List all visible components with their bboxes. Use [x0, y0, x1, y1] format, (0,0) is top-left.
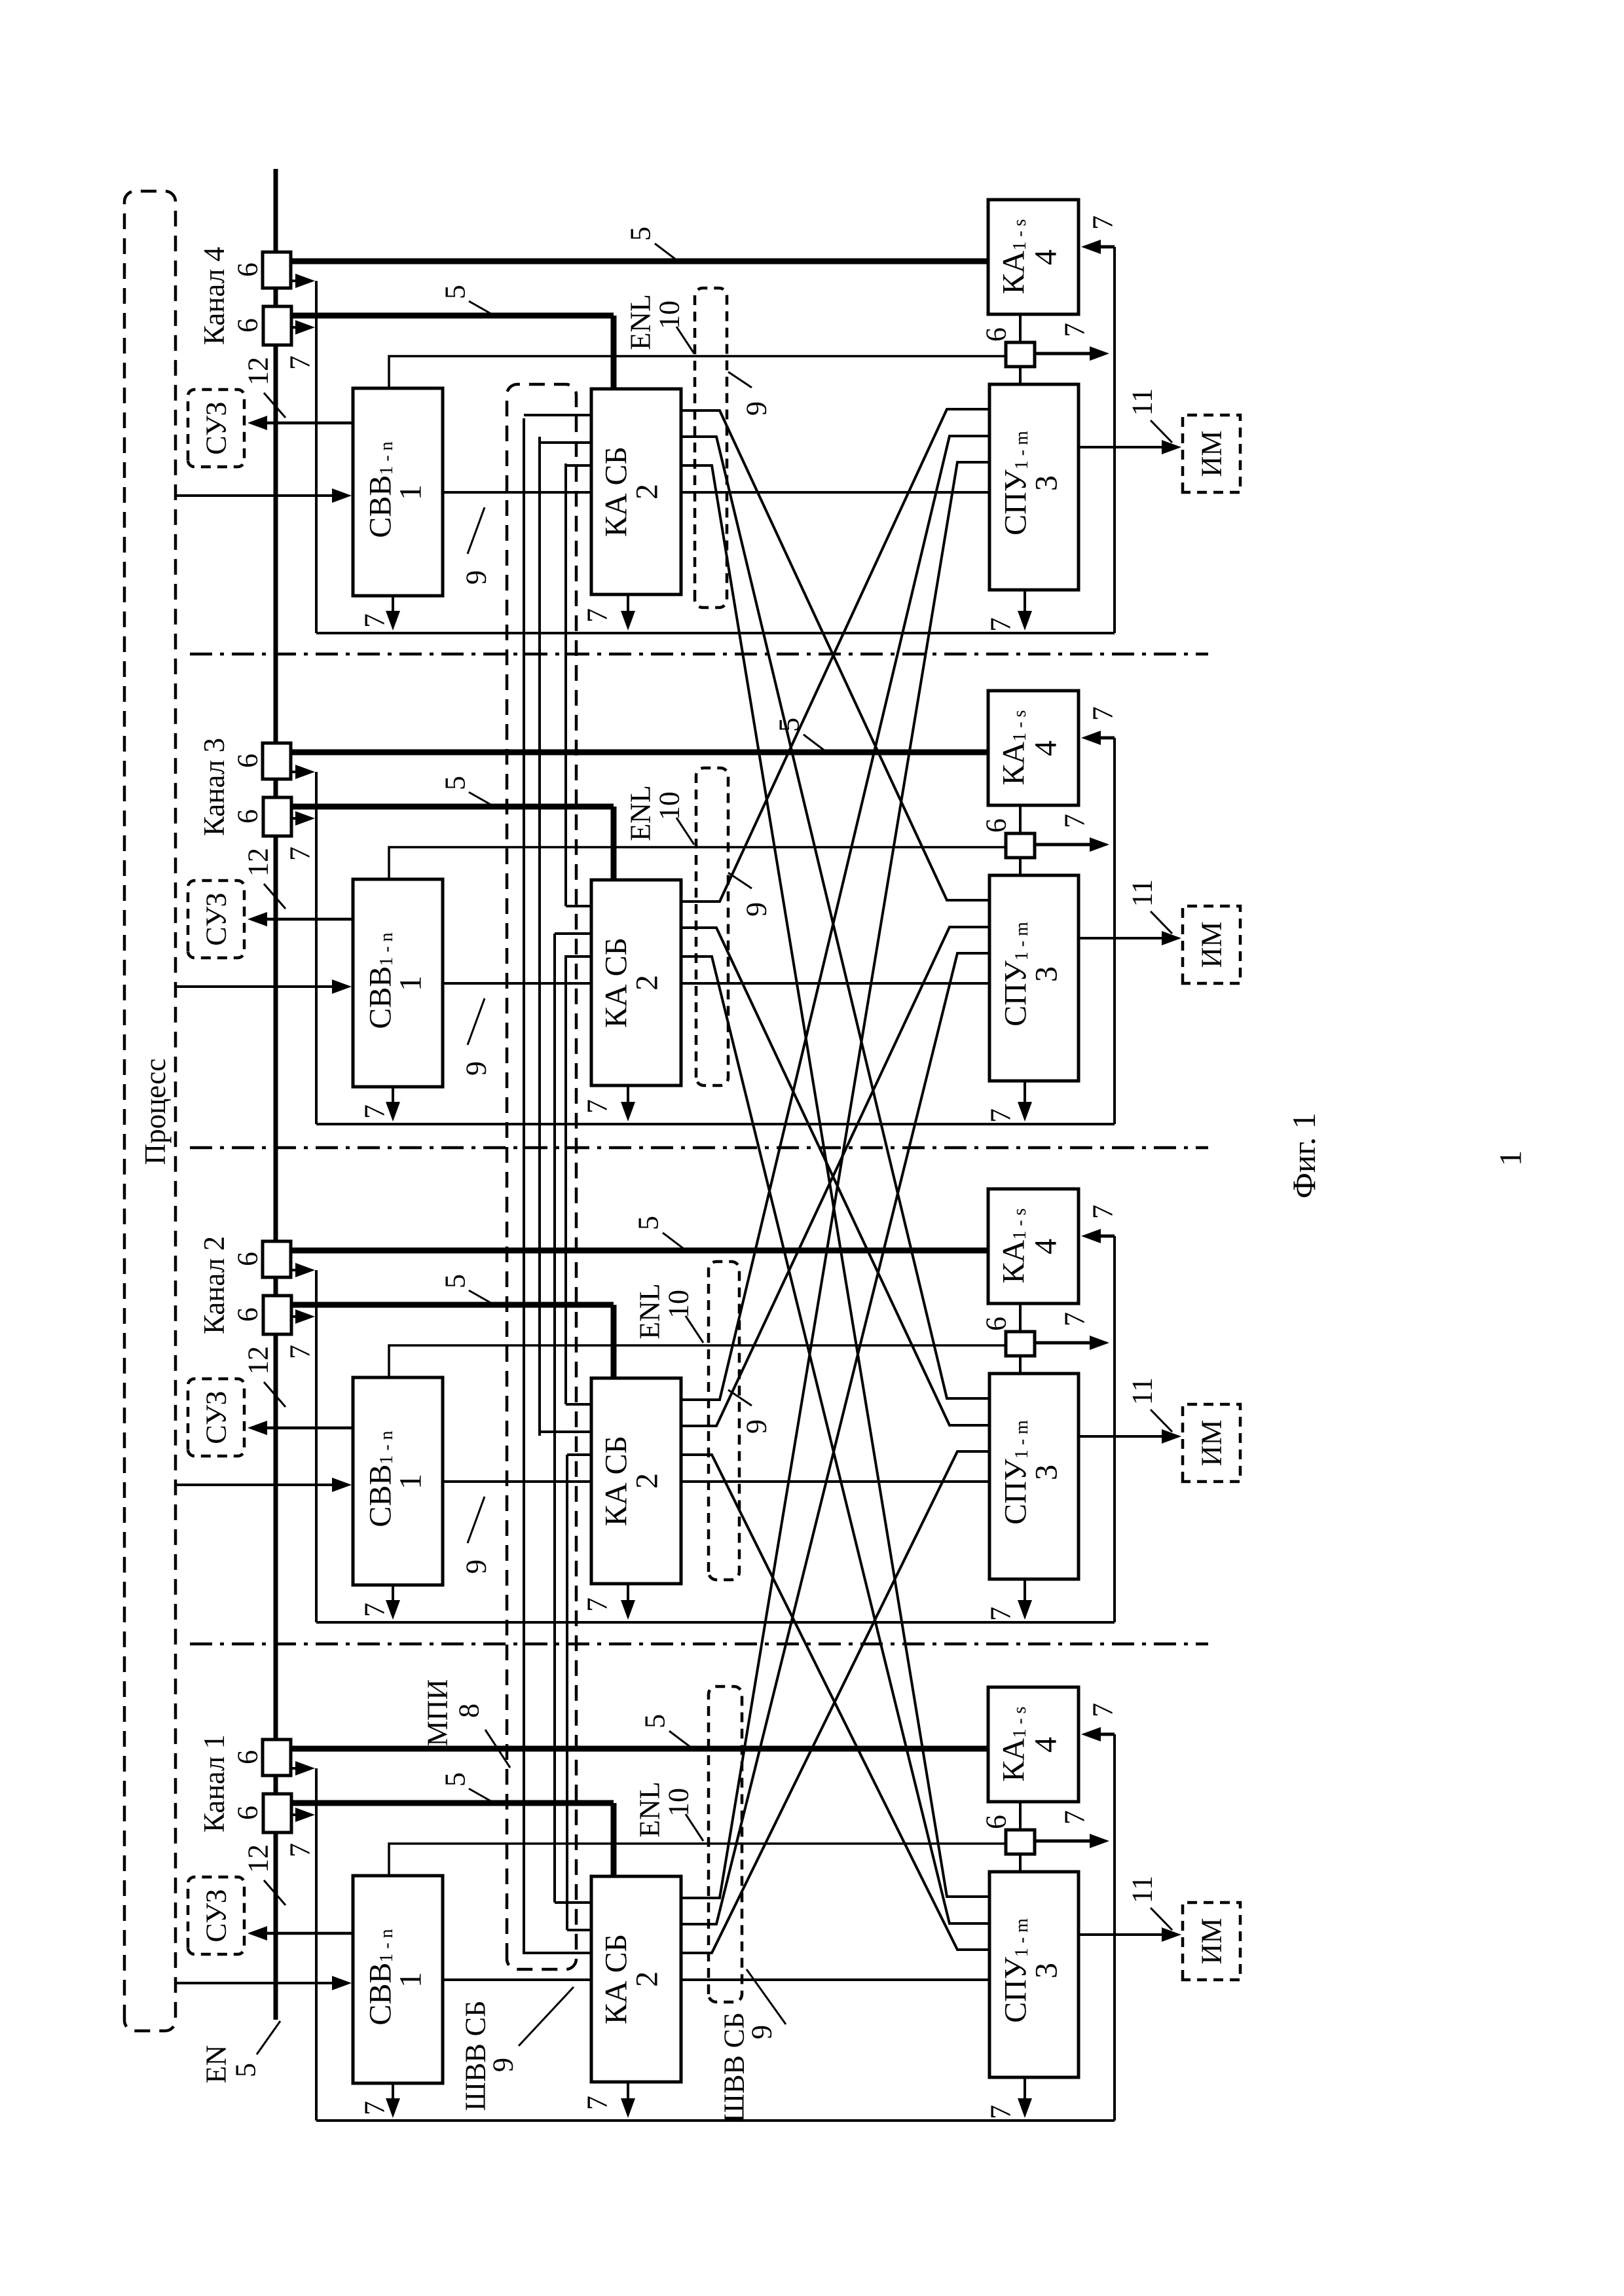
svg-text:12: 12	[242, 1346, 274, 1375]
svg-text:12: 12	[242, 1844, 274, 1873]
wire KA SB to SPU horizontal ch4	[681, 491, 989, 494]
wire MPI stub L1 into KA SB ch1	[555, 1901, 591, 1904]
wire line 7 bottom horizontal ch2	[316, 1621, 1115, 1624]
callout slash ENL 10 ch1	[686, 1814, 703, 1841]
wire 7 down arrow from SPU ch4	[1024, 590, 1026, 619]
wire ENL link KA SB ch3 stub1 to SPU ch4 stub1	[681, 409, 989, 902]
channel separator dash-dot line 2	[190, 1146, 1208, 1150]
wire process input arrow into SVV ch1	[174, 1982, 335, 1984]
svg-text:7: 7	[359, 613, 391, 628]
wire ENL link KA SB ch2 stub1 to SPU ch4 stub2	[681, 436, 989, 1400]
wire line 7 right vertical ch2	[1113, 1236, 1116, 1622]
bus coupler square 6a channel 4	[263, 252, 291, 288]
svg-text:7: 7	[1087, 215, 1119, 230]
svg-text:7: 7	[1059, 1810, 1091, 1825]
block SVV 1-n (1) ch1	[353, 1876, 443, 2083]
wire ENL link KA SB ch1 stub1 to SPU ch4 stub3	[681, 462, 989, 1898]
bus coupler square 6a channel 1	[263, 1740, 291, 1776]
svg-text:7: 7	[581, 1597, 614, 1612]
svg-text:Процесс: Процесс	[139, 1059, 172, 1165]
svg-text:7: 7	[1087, 1205, 1119, 1219]
wire line 7 vertical ch3	[315, 772, 318, 1124]
block KA SB (2) ch4	[591, 389, 681, 594]
svg-text:1: 1	[394, 484, 428, 500]
svg-text:6: 6	[232, 1252, 264, 1266]
svg-text:ИМ: ИМ	[1196, 1918, 1228, 1965]
wire MPI stub L3 into KA SB ch3	[566, 955, 591, 958]
wire arrow coupler 6c to line 7 ch4	[1035, 352, 1092, 355]
svg-text:КА СБ: КА СБ	[599, 1436, 634, 1526]
svg-text:7: 7	[985, 617, 1017, 632]
callout slash 9b ch2	[728, 1390, 752, 1406]
SUZ dashed box ch4	[188, 390, 244, 467]
callout slash for МПИ 8	[485, 1730, 510, 1768]
wire arrow from coupler 6a to line 7 ch2	[291, 1269, 300, 1271]
coupler square 6c ch3	[1006, 833, 1035, 858]
wire SVV to KA SB horizontal (SHVV SB 9) ch3	[443, 982, 591, 985]
wire thick line 5B from coupler 6b ch1	[291, 1800, 614, 1806]
wire coupler 6c to SPU ch4	[1019, 367, 1022, 384]
svg-text:6: 6	[980, 1317, 1012, 1331]
svg-text:ИМ: ИМ	[1196, 1420, 1228, 1467]
svg-text:7: 7	[1087, 1703, 1119, 1717]
ENL dashed box (10) ch4	[695, 288, 727, 608]
svg-text:ИМ: ИМ	[1196, 922, 1228, 968]
bus coupler square 6b channel 3	[263, 797, 291, 836]
callout slash 5A ch2	[663, 1233, 684, 1249]
wire MPI stub L3 into KA SB ch4	[566, 464, 591, 467]
svg-text:6: 6	[232, 1307, 264, 1322]
callout slash 5A ch3	[803, 735, 825, 751]
svg-text:3: 3	[1029, 1963, 1064, 1978]
svg-text:5: 5	[230, 2063, 262, 2077]
callout slash ENL 10 ch2	[686, 1316, 703, 1343]
svg-text:Фиг. 1: Фиг. 1	[1285, 1112, 1322, 1198]
wire arrow coupler 6c to line 7 ch2	[1035, 1341, 1092, 1345]
svg-text:5: 5	[439, 1274, 471, 1288]
svg-text:8: 8	[453, 1704, 485, 1718]
block SPU 1-m (3) ch3	[989, 875, 1079, 1081]
callout slash 9b ch1	[747, 1969, 786, 2024]
wire process input arrow into SVV ch3	[174, 985, 335, 988]
svg-text:5: 5	[439, 285, 471, 299]
coupler square 6c ch2	[1006, 1332, 1035, 1356]
svg-text:4: 4	[1029, 740, 1063, 756]
wire MPI W3 (ch4 L3 to ch3 L1) x=864	[564, 464, 567, 906]
bus coupler square 6a channel 2	[263, 1241, 291, 1277]
wire SVV top line to coupler 6 near SPU ch4	[389, 356, 1006, 388]
wire arrow from coupler 6a to line 7 ch3	[291, 771, 300, 773]
wire thick line 5B drop into KA SB top ch3	[611, 807, 617, 880]
wire ENL link KA SB ch2 stub3 to SPU ch1 stub3	[681, 1455, 989, 1950]
block SPU 1-m (3) ch4	[989, 384, 1079, 590]
wire 7 down arrow from KA SB ch1	[627, 2082, 629, 2106]
block KA 1-s (4) ch2	[988, 1189, 1079, 1303]
svg-text:11: 11	[1126, 388, 1158, 416]
svg-text:Канал 4: Канал 4	[198, 247, 231, 345]
wire MPI stub L1 into KA SB ch3	[566, 905, 591, 907]
svg-text:СУЗ: СУЗ	[200, 1391, 232, 1444]
wire MPI W6 (ch2 L3 to ch1 L2) x=866	[566, 1455, 568, 1930]
wire arrow coupler 6c to line 7 ch1	[1035, 1840, 1092, 1843]
wire ENL link KA SB ch1 stub2 to SPU ch3 stub3	[681, 953, 989, 1924]
callout slash EN 5	[257, 2021, 280, 2054]
ENL dashed box (10) ch2	[709, 1262, 739, 1580]
svg-text:ENL: ENL	[625, 785, 657, 841]
svg-text:6: 6	[980, 327, 1012, 342]
svg-text:3: 3	[1029, 475, 1064, 491]
svg-text:6: 6	[232, 1806, 264, 1820]
wire MPI stub L3 into KA SB ch2	[567, 1453, 591, 1456]
svg-text:12: 12	[242, 357, 274, 386]
wire thick line 5B from coupler 6b ch2	[291, 1302, 614, 1308]
wire arrow line 7 into KA right edge ch4	[1098, 246, 1115, 249]
wire SVV top line to coupler 6 near SPU ch2	[389, 1345, 1006, 1377]
svg-text:10: 10	[654, 301, 686, 329]
wire thick line 5A from coupler 6a to KA block ch1	[291, 1746, 988, 1752]
svg-text:7: 7	[359, 1104, 391, 1119]
block SVV 1-n (1) ch3	[353, 879, 443, 1087]
block SVV 1-n (1) ch4	[353, 388, 443, 596]
wire 12 output to SUZ ch3	[265, 918, 353, 921]
callout slash 9a ch3	[468, 998, 485, 1045]
svg-text:7: 7	[985, 2105, 1017, 2119]
wire thick line 5A from coupler 6a to KA block ch2	[291, 1248, 988, 1254]
wire 7 down arrow from KA SB ch4	[627, 594, 629, 619]
wire KA SB to SPU horizontal ch2	[681, 1480, 989, 1483]
bus coupler square 6b channel 2	[263, 1296, 291, 1334]
callout slash 5B ch4	[469, 301, 493, 315]
svg-text:4: 4	[1029, 249, 1063, 265]
wire KA SB to SPU horizontal ch3	[681, 982, 989, 985]
svg-text:7: 7	[359, 2101, 391, 2115]
svg-text:9: 9	[460, 1559, 492, 1574]
callout slash 9a ch1	[519, 1987, 574, 2046]
wire SVV top line to coupler 6 near SPU ch3	[389, 847, 1006, 879]
svg-text:1: 1	[394, 1474, 428, 1489]
wire line 7 vertical ch1	[315, 1768, 318, 2121]
wire line 7 right vertical ch4	[1113, 247, 1116, 633]
callout slash for 12 ch4	[264, 393, 286, 418]
callout slash 5B ch1	[469, 1789, 493, 1802]
callout slash 5A ch4	[655, 244, 676, 260]
callout slash 9b ch4	[728, 372, 752, 388]
IM dashed box ch3	[1183, 906, 1240, 983]
svg-text:КА СБ: КА СБ	[599, 938, 634, 1028]
callout slash 9a ch4	[468, 507, 485, 554]
wire arrow from coupler 6a to line 7 ch4	[291, 280, 300, 282]
IM dashed box ch2	[1183, 1404, 1240, 1482]
svg-text:11: 11	[1126, 1377, 1158, 1405]
wire 7 down arrow from SPU ch3	[1024, 1081, 1026, 1110]
svg-text:КА СБ: КА СБ	[599, 446, 634, 537]
IM dashed box ch4	[1183, 415, 1240, 492]
SUZ dashed box ch2	[188, 1379, 244, 1456]
svg-text:ENL: ENL	[634, 1283, 666, 1339]
svg-text:5: 5	[625, 227, 657, 241]
svg-text:7: 7	[284, 1843, 316, 1857]
svg-text:6: 6	[232, 809, 264, 824]
wire 11 output arrow SPU to IM ch1	[1079, 1933, 1166, 1936]
wire process input arrow into SVV ch2	[174, 1484, 335, 1486]
svg-text:7: 7	[985, 1108, 1017, 1123]
svg-text:12: 12	[242, 848, 274, 877]
ENL dashed box (10) ch1	[709, 1686, 742, 2002]
block KA 1-s (4) ch1	[988, 1687, 1079, 1802]
block KA 1-s (4) ch3	[988, 691, 1079, 805]
svg-text:4: 4	[1029, 1239, 1063, 1254]
svg-text:2: 2	[630, 484, 665, 500]
svg-text:3: 3	[1029, 966, 1064, 982]
callout slash 11 ch1	[1151, 1908, 1172, 1930]
svg-text:7: 7	[1059, 814, 1091, 828]
wire arrow from coupler 6b to line 7 ch4	[291, 326, 300, 329]
callout slash for 12 ch2	[264, 1382, 286, 1407]
wire arrow from coupler 6b to line 7 ch3	[291, 817, 300, 820]
wire arrow from coupler 6b to line 7 ch2	[291, 1315, 300, 1318]
callout slash ENL 10 ch3	[676, 818, 694, 845]
svg-text:1: 1	[394, 975, 428, 991]
wire ENL link KA SB ch4 stub2 to SPU ch2 stub1	[681, 437, 989, 1398]
svg-text:9: 9	[741, 902, 773, 917]
wire ENL link KA SB ch3 stub3 to SPU ch1 stub2	[681, 957, 989, 1923]
svg-text:EN: EN	[200, 2045, 232, 2084]
svg-text:1: 1	[394, 1972, 428, 1988]
SUZ dashed box ch1	[188, 1877, 244, 1954]
wire MPI stub L1 into KA SB ch2	[566, 1403, 591, 1406]
svg-text:11: 11	[1126, 1876, 1158, 1903]
wire KA to coupler 6c ch4	[1019, 314, 1022, 342]
wire ENL link KA SB ch4 stub3 to SPU ch1 stub1	[681, 465, 989, 1897]
block KA 1-s (4) ch4	[988, 200, 1079, 314]
bus coupler square 6b channel 4	[263, 306, 291, 345]
wire ENL link KA SB ch2 stub2 to SPU ch3 stub2	[681, 927, 989, 1426]
SUZ dashed box ch3	[188, 881, 244, 958]
svg-text:9: 9	[741, 401, 773, 416]
wire arrow line 7 into KA right edge ch1	[1098, 1733, 1115, 1736]
svg-text:9: 9	[460, 570, 492, 585]
svg-text:ENL: ENL	[625, 294, 657, 350]
svg-text:5: 5	[639, 1714, 671, 1728]
callout slash 9b ch3	[728, 873, 752, 888]
svg-text:ENL: ENL	[634, 1781, 666, 1838]
wire 12 output to SUZ ch1	[265, 1932, 353, 1935]
wire 7 down arrow from SVV ch1	[392, 2083, 394, 2106]
wire MPI stub L2 into KA SB ch3	[555, 932, 591, 935]
wire thick line 5B drop into KA SB top ch1	[611, 1803, 617, 1876]
wire thick line 5A from coupler 6a to KA block ch3	[291, 750, 988, 756]
svg-text:10: 10	[654, 792, 686, 820]
bus coupler square 6a channel 3	[263, 743, 291, 779]
block SPU 1-m (3) ch2	[989, 1374, 1079, 1579]
wire MPI stub L2 into KA SB ch2	[540, 1430, 591, 1433]
callout slash 5B ch3	[469, 792, 493, 806]
callout slash 11 ch4	[1151, 420, 1172, 443]
wire MPI W2 (ch4 L2 to ch2 L2) x=824	[538, 437, 541, 1436]
wire KA to coupler 6c ch2	[1019, 1303, 1022, 1332]
wire KA to coupler 6c ch3	[1019, 805, 1022, 833]
callout slash 11 ch3	[1151, 911, 1172, 934]
IM dashed box ch1	[1183, 1903, 1240, 1980]
wire 7 down arrow from SVV ch2	[392, 1585, 394, 1608]
svg-text:2: 2	[630, 1971, 665, 1987]
svg-text:1: 1	[1494, 1150, 1528, 1166]
wire coupler 6c to SPU ch2	[1019, 1356, 1022, 1374]
block KA SB (2) ch3	[591, 880, 681, 1085]
svg-text:Канал 3: Канал 3	[198, 738, 231, 836]
svg-text:7: 7	[1087, 706, 1119, 721]
svg-text:7: 7	[284, 1345, 316, 1359]
wire MPI W4 (ch3 L2 to ch1 L1) x=847	[553, 934, 556, 1903]
svg-text:7: 7	[1059, 323, 1091, 337]
block KA SB (2) ch1	[591, 1876, 681, 2082]
wire line 7 vertical ch2	[315, 1270, 318, 1622]
svg-text:6: 6	[232, 1750, 264, 1764]
channel separator dash-dot line 1	[190, 653, 1208, 656]
svg-text:СУЗ: СУЗ	[200, 401, 232, 454]
process environment dashed box "Процесс"	[124, 191, 175, 2031]
wire arrow line 7 into KA right edge ch3	[1098, 737, 1115, 740]
wire 7 down arrow from SVV ch4	[392, 596, 394, 619]
callout slash 9a ch2	[468, 1497, 485, 1543]
svg-text:7: 7	[359, 1603, 391, 1617]
wire 7 down arrow from SPU ch1	[1024, 2077, 1026, 2106]
callout slash for 12 ch3	[264, 884, 286, 909]
coupler square 6c ch1	[1006, 1830, 1035, 1854]
channel separator dash-dot line 3	[190, 1643, 1208, 1646]
wire line 7 right vertical ch1	[1113, 1734, 1116, 2121]
wire 7 down arrow from SVV ch3	[392, 1087, 394, 1110]
block SVV 1-n (1) ch2	[353, 1377, 443, 1585]
block KA SB (2) ch2	[591, 1378, 681, 1584]
wire KA SB to SPU horizontal ch1	[681, 1978, 989, 1981]
wire arrow line 7 into KA right edge ch2	[1098, 1235, 1115, 1238]
svg-text:6: 6	[232, 318, 264, 333]
wire MPI stub L2 into KA SB ch4	[540, 441, 591, 444]
wire line 7 bottom horizontal ch3	[316, 1123, 1115, 1125]
svg-text:Канал 2: Канал 2	[198, 1236, 231, 1334]
callout slash 5B ch2	[469, 1290, 493, 1304]
wire arrow coupler 6c to line 7 ch3	[1035, 843, 1092, 847]
svg-text:МПИ: МПИ	[422, 1679, 454, 1747]
wire thick line 5B from coupler 6b ch3	[291, 804, 614, 810]
wire MPI stub L2 into KA SB ch1	[567, 1929, 591, 1931]
svg-text:ШВВ СБ: ШВВ СБ	[460, 2001, 492, 2111]
wire 12 output to SUZ ch2	[265, 1427, 353, 1430]
svg-text:7: 7	[581, 2096, 614, 2110]
svg-text:10: 10	[663, 1788, 695, 1817]
callout slash 5A ch1	[669, 1731, 691, 1747]
svg-text:11: 11	[1126, 879, 1158, 907]
wire MPI stub L3 into KA SB ch1	[524, 1952, 591, 1954]
svg-text:6: 6	[232, 754, 264, 768]
wire coupler 6c to SPU ch3	[1019, 858, 1022, 875]
bus coupler square 6b channel 1	[263, 1794, 291, 1832]
MPI bus dashed box (8)	[507, 384, 576, 1969]
wire line 7 bottom horizontal ch4	[316, 632, 1115, 634]
wire 12 output to SUZ ch4	[265, 422, 353, 425]
svg-text:ИМ: ИМ	[1196, 431, 1228, 477]
svg-text:5: 5	[439, 776, 471, 790]
wire SVV to KA SB horizontal (SHVV SB 9) ch4	[443, 491, 591, 494]
wire line 7 right vertical ch3	[1113, 738, 1116, 1124]
wire 7 down arrow from KA SB ch3	[627, 1085, 629, 1110]
svg-text:5: 5	[773, 718, 805, 732]
svg-text:9: 9	[741, 1419, 773, 1434]
svg-text:4: 4	[1029, 1737, 1063, 1753]
svg-text:7: 7	[985, 1607, 1017, 1621]
svg-text:КА СБ: КА СБ	[599, 1934, 634, 2024]
svg-text:7: 7	[581, 1099, 614, 1114]
wire SVV to KA SB horizontal (SHVV SB 9) ch1	[443, 1978, 591, 1981]
callout slash 11 ch2	[1151, 1410, 1172, 1432]
callout slash ENL 10 ch4	[676, 327, 694, 354]
svg-text:6: 6	[980, 1815, 1012, 1829]
wire MPI stub L1 into KA SB ch4	[524, 414, 591, 416]
svg-text:6: 6	[980, 818, 1012, 833]
svg-text:9: 9	[460, 1061, 492, 1076]
wire process input arrow into SVV ch4	[174, 494, 335, 497]
svg-text:7: 7	[581, 608, 614, 623]
wire thick line 5B drop into KA SB top ch2	[611, 1305, 617, 1378]
wire SVV to KA SB horizontal (SHVV SB 9) ch2	[443, 1480, 591, 1483]
svg-text:10: 10	[663, 1290, 695, 1319]
svg-text:СУЗ: СУЗ	[200, 892, 232, 945]
wire 7 down arrow from KA SB ch2	[627, 1584, 629, 1608]
wire arrow from coupler 6a to line 7 ch1	[291, 1767, 300, 1770]
svg-text:5: 5	[633, 1216, 665, 1230]
svg-text:3: 3	[1029, 1465, 1064, 1480]
wire ENL link KA SB ch3 stub2 to SPU ch2 stub2	[681, 928, 989, 1425]
wire 7 down arrow from SPU ch2	[1024, 1579, 1026, 1608]
svg-text:2: 2	[630, 975, 665, 991]
svg-text:9: 9	[746, 2025, 778, 2039]
svg-text:7: 7	[1059, 1312, 1091, 1326]
svg-text:СУЗ: СУЗ	[200, 1889, 232, 1942]
wire MPI W1 (ch4 L1 to ch1 L3) x=800	[523, 418, 525, 1954]
svg-text:2: 2	[630, 1473, 665, 1489]
wire thick line 5B from coupler 6b ch4	[291, 313, 614, 319]
callout slash for 12 ch1	[264, 1880, 286, 1905]
wire line 7 vertical ch4	[315, 281, 318, 633]
wire thick line 5A from coupler 6a to KA block ch4	[291, 259, 988, 264]
wire ENL link KA SB ch1 stub3 to SPU ch2 stub3	[681, 1451, 989, 1953]
svg-text:7: 7	[284, 847, 316, 861]
svg-text:6: 6	[232, 263, 264, 277]
wire 11 output arrow SPU to IM ch4	[1079, 446, 1166, 448]
svg-text:7: 7	[284, 355, 316, 370]
coupler square 6c ch4	[1006, 342, 1035, 367]
wire arrow from coupler 6b to line 7 ch1	[291, 1813, 300, 1816]
wire coupler 6c to SPU ch1	[1019, 1854, 1022, 1872]
ENL dashed box (10) ch3	[696, 768, 728, 1085]
block SPU 1-m (3) ch1	[989, 1872, 1079, 2077]
svg-text:5: 5	[439, 1772, 471, 1787]
svg-text:9: 9	[487, 2058, 519, 2072]
wire 11 output arrow SPU to IM ch3	[1079, 937, 1166, 939]
wire KA to coupler 6c ch1	[1019, 1802, 1022, 1830]
wire SVV top line to coupler 6 near SPU ch1	[389, 1844, 1006, 1876]
wire 11 output arrow SPU to IM ch2	[1079, 1435, 1166, 1438]
bus EN vertical line (5)	[274, 169, 278, 2020]
wire thick line 5B drop into KA SB top ch4	[611, 316, 617, 389]
wire line 7 bottom horizontal ch1	[316, 2119, 1115, 2122]
svg-text:Канал 1: Канал 1	[198, 1734, 231, 1832]
wire ENL link KA SB ch4 stub1 to SPU ch3 stub1	[681, 410, 989, 900]
wire MPI W5 (ch3 L3 to ch2 L1) x=864	[564, 955, 567, 1404]
